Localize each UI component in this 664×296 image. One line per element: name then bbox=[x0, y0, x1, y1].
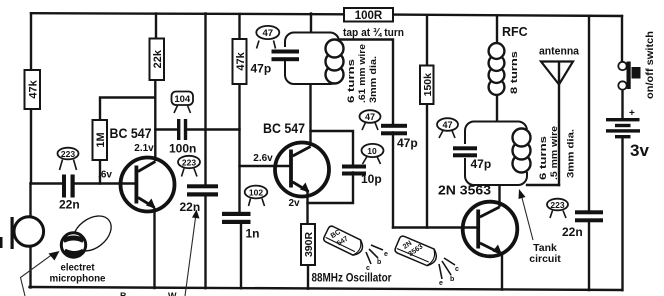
resistor 1M bbox=[93, 120, 108, 160]
capacitor 22n mic coupling bbox=[59, 175, 80, 212]
wire rail down to 47k second bbox=[238, 14, 240, 39]
svg-text:47p: 47p bbox=[397, 136, 418, 150]
scan edge marks left border bbox=[0, 237, 3, 248]
wire 150k bottom to Q3 base node bbox=[426, 104, 428, 228]
wire tank 2 bottom extension to antenna bbox=[527, 184, 559, 186]
capacitor 47p tap bbox=[381, 124, 418, 150]
wire 100n to decoupling node bbox=[188, 128, 240, 130]
svg-text:150k: 150k bbox=[422, 73, 434, 97]
electret microphone symbol bbox=[11, 217, 44, 249]
svg-text:2.6v: 2.6v bbox=[253, 153, 273, 164]
svg-text:+: + bbox=[629, 108, 635, 119]
wire top supply rail left section bbox=[31, 13, 344, 14]
capacitor 1n bbox=[222, 212, 260, 241]
svg-text:102: 102 bbox=[249, 187, 263, 197]
svg-text:6 turns: 6 turns bbox=[346, 59, 357, 103]
wire rail corner down to switch bbox=[621, 16, 623, 62]
svg-text:22k: 22k bbox=[152, 49, 164, 68]
capacitor 10p bbox=[342, 165, 382, 187]
resistor 390R bbox=[301, 224, 315, 265]
callout arrow to 22n bbox=[185, 210, 200, 296]
resistor 47k left bbox=[25, 70, 41, 109]
callout arrow to microphone bbox=[21, 251, 60, 296]
svg-text:circuit: circuit bbox=[529, 253, 561, 265]
label Tank circuit with arrow bbox=[519, 189, 562, 265]
svg-text:22n: 22n bbox=[562, 225, 583, 239]
svg-text:47k: 47k bbox=[28, 79, 40, 98]
wire rail down to tank 1 top bbox=[310, 14, 312, 34]
ceramic cap icon 47 tap bbox=[360, 110, 381, 130]
wire RFC bottom to tank 2 top bbox=[496, 94, 498, 122]
svg-text:on/off switch: on/off switch bbox=[645, 31, 656, 99]
svg-text:b: b bbox=[450, 276, 454, 283]
svg-text:10p: 10p bbox=[361, 172, 382, 186]
svg-text:.5 mm wire: .5 mm wire bbox=[549, 126, 560, 180]
wire tank 1 bottom to Q2 collector bbox=[309, 84, 311, 145]
wire antenna feed line bbox=[558, 62, 560, 185]
wire tank 2 bottom to Q3 collector bbox=[498, 185, 500, 206]
wire 1M feedback from collector node bbox=[100, 98, 155, 121]
wire bottom ground rail bbox=[30, 287, 623, 290]
wire Q3 base node to base bbox=[393, 226, 478, 228]
svg-text:390R: 390R bbox=[303, 232, 315, 258]
wire top supply rail right section bbox=[393, 15, 622, 16]
tank 1 resonant circuit outline bbox=[282, 33, 342, 85]
wire Q1 emitter to ground rail bbox=[153, 209, 155, 288]
svg-text:8 turns: 8 turns bbox=[509, 51, 520, 94]
svg-text:electret: electret bbox=[61, 263, 96, 274]
ceramic cap icon 47 tank 1 bbox=[256, 26, 279, 49]
ceramic cap icon 102 bbox=[245, 186, 268, 206]
wire 22n cap to Q1 base bbox=[75, 182, 136, 184]
svg-text:223: 223 bbox=[182, 157, 196, 167]
wire 47k bottom to mic node bbox=[30, 109, 32, 184]
svg-text:47k: 47k bbox=[235, 51, 247, 70]
svg-text:2v: 2v bbox=[288, 198, 300, 209]
wire 22n decoupler to ground rail bbox=[588, 220, 590, 290]
wire 22k bottom to Q1 collector bbox=[154, 80, 156, 160]
wire 47p tap cap down to Q3 base node bbox=[392, 133, 394, 228]
capacitor 47p tank 1 bbox=[251, 50, 300, 76]
transistor Q1 BC547 bbox=[121, 158, 175, 212]
caption fragments cut at bottom edge bbox=[120, 291, 177, 296]
capacitor 22n decoupler right bbox=[562, 210, 603, 239]
svg-text:47p: 47p bbox=[251, 62, 272, 76]
antenna bbox=[539, 46, 580, 85]
inductor L1 oscillator coil 6 turns bbox=[326, 40, 344, 84]
wire left rail down to 47k bbox=[30, 13, 32, 70]
ceramic cap icon 223 first stage bbox=[178, 156, 200, 177]
svg-text:223: 223 bbox=[61, 149, 75, 159]
svg-text:c: c bbox=[366, 265, 370, 272]
svg-text:3mm dia.: 3mm dia. bbox=[565, 129, 576, 178]
wire rail down decoupling branch to 22n bbox=[204, 14, 206, 186]
resistor 100R bbox=[344, 8, 393, 22]
svg-text:3v: 3v bbox=[630, 141, 649, 160]
wire Q2 emitter down to 390R bbox=[306, 193, 308, 225]
svg-text:BC 547: BC 547 bbox=[110, 126, 152, 141]
resistor 22k bbox=[150, 39, 165, 81]
inductor RFC 8 turns bbox=[489, 43, 505, 95]
svg-text:BC 547: BC 547 bbox=[263, 121, 305, 136]
wire rail down to 22k bbox=[155, 14, 157, 39]
svg-text:RFC: RFC bbox=[502, 25, 528, 39]
ceramic cap icon 104 bbox=[172, 92, 194, 114]
svg-text:antenna: antenna bbox=[539, 46, 580, 58]
svg-text:47: 47 bbox=[263, 28, 274, 39]
wire 390R bottom to ground rail bbox=[307, 265, 309, 289]
wire Q2 base node to base bbox=[240, 165, 292, 167]
wire microphone bottom to ground rail bbox=[29, 246, 31, 288]
capacitor 22n first stage bbox=[180, 184, 219, 214]
wire rail down to RFC bbox=[496, 16, 498, 45]
wire collector node to 100n bbox=[155, 128, 177, 130]
svg-text:B: B bbox=[120, 291, 127, 296]
wire 10p bottom branch to emitter bbox=[308, 173, 354, 204]
capacitor 47p tank 2 bbox=[453, 146, 491, 171]
svg-text:223: 223 bbox=[550, 200, 564, 210]
label coil 1 winding details bbox=[346, 44, 379, 103]
ceramic cap icon 223 right bbox=[547, 199, 568, 218]
svg-text:2.1v: 2.1v bbox=[134, 143, 154, 154]
transistor Q3 2N3563 bbox=[463, 202, 518, 257]
svg-text:W: W bbox=[168, 291, 177, 296]
svg-text:.61 mm wire: .61 mm wire bbox=[357, 44, 368, 103]
inductor L2 tank coil 6 turns bbox=[513, 129, 531, 173]
svg-text:47: 47 bbox=[365, 112, 375, 122]
svg-text:3mm dia.: 3mm dia. bbox=[368, 56, 379, 103]
transistor package drawing 2N3563 bbox=[394, 235, 439, 268]
transistor package drawing BC547 bbox=[323, 225, 366, 258]
label electret microphone bbox=[50, 263, 106, 285]
wire rail down to 150k bbox=[426, 15, 428, 66]
svg-text:tap at ¾ turn: tap at ¾ turn bbox=[343, 27, 404, 39]
switch on/off bbox=[618, 31, 656, 99]
svg-text:b: b bbox=[377, 259, 381, 266]
svg-text:88MHz Oscillator: 88MHz Oscillator bbox=[312, 271, 392, 285]
svg-text:6 turns: 6 turns bbox=[538, 136, 549, 180]
wire 1n bottom to ground rail bbox=[240, 224, 242, 288]
wire battery bottom to ground rail bbox=[621, 138, 623, 290]
resistor 47k second bbox=[233, 39, 247, 84]
wire Q3 emitter to ground rail bbox=[501, 253, 503, 290]
svg-text:100n: 100n bbox=[169, 142, 196, 156]
svg-text:1n: 1n bbox=[246, 227, 260, 241]
battery 3v bbox=[606, 108, 649, 160]
svg-text:10: 10 bbox=[367, 146, 377, 156]
wire mic node down to microphone bbox=[29, 184, 31, 218]
svg-text:104: 104 bbox=[174, 94, 191, 105]
transistor Q2 BC547 bbox=[275, 143, 329, 197]
electret microphone cartoon bbox=[61, 209, 118, 258]
svg-text:47p: 47p bbox=[471, 157, 492, 171]
wire rail down to 22n decoupler right bbox=[588, 16, 590, 212]
ceramic cap icon 223 mic bbox=[58, 148, 79, 170]
svg-text:e: e bbox=[384, 251, 388, 258]
wire coil tap line bbox=[335, 40, 393, 125]
wire 10p top branch from collector bbox=[311, 131, 354, 165]
ceramic cap icon 47 tank 2 bbox=[437, 118, 458, 138]
svg-text:.6v: .6v bbox=[98, 170, 112, 181]
package 2N3563 legs and labels bbox=[439, 258, 459, 287]
label coil 2 winding details bbox=[538, 126, 577, 180]
svg-text:47: 47 bbox=[442, 120, 452, 130]
wire 22n decoupling cap to ground rail bbox=[204, 195, 206, 288]
svg-text:microphone: microphone bbox=[50, 274, 106, 285]
wire mic node to 22n coupling cap bbox=[31, 182, 63, 184]
svg-text:100R: 100R bbox=[355, 10, 383, 22]
svg-text:c: c bbox=[455, 266, 459, 273]
svg-text:e: e bbox=[439, 280, 443, 287]
package BC547 legs and labels bbox=[366, 245, 388, 272]
wire switch to battery bbox=[621, 90, 623, 119]
ceramic cap icon 10 bbox=[362, 144, 384, 164]
wire 47k second bottom through Q2 base node to 1n bbox=[238, 84, 240, 212]
svg-text:22n: 22n bbox=[59, 198, 80, 212]
wire 1M bottom to base node bbox=[99, 160, 101, 184]
resistor 150k bbox=[420, 66, 434, 105]
svg-text:1M: 1M bbox=[95, 132, 107, 147]
tank 2 resonant circuit outline bbox=[462, 122, 530, 186]
capacitor 100n bbox=[169, 119, 196, 156]
